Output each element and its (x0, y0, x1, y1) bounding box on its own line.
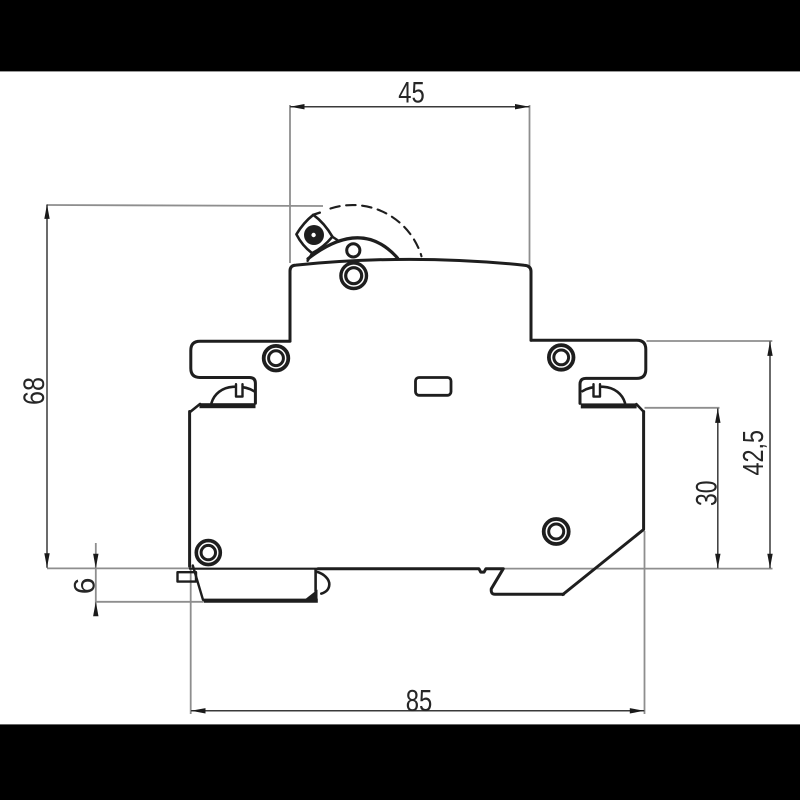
lever bottom tail (308, 253, 313, 261)
left clip slant edge (193, 566, 203, 600)
arrow 42.5 bottom (767, 554, 772, 569)
lower body right edge + chamfer (563, 412, 644, 595)
arrow 6 lower (points up) (93, 602, 98, 617)
left clip bottom bar (203, 599, 318, 603)
ext line 45 left (289, 105, 291, 263)
svg-text:30: 30 (691, 481, 724, 507)
ext line 45 right (529, 105, 531, 266)
letterbox band bottom (0, 724, 800, 800)
lever diamond (296, 215, 332, 253)
left wing (191, 341, 290, 403)
arrow 30 bottom (715, 554, 720, 569)
right clamp arc (583, 387, 626, 403)
right wing (531, 340, 646, 403)
arrow 85 right (630, 708, 645, 713)
left clip right vertical (314, 570, 317, 592)
svg-text:42,5: 42,5 (738, 430, 770, 476)
left clip claw curve (317, 572, 330, 594)
ext line 30 top (645, 407, 720, 409)
svg-text:85: 85 (406, 683, 433, 718)
right wing screw inner (554, 350, 569, 365)
letterbox band top (0, 0, 800, 71)
dashed swing arc (331, 205, 422, 256)
lever right tail (332, 237, 339, 242)
big circle outer (341, 263, 367, 289)
left clip claw triangle (304, 590, 318, 601)
left clamp bar (200, 403, 256, 408)
arrow 30 top (715, 408, 720, 423)
left clamp slot (236, 384, 243, 396)
dim line 42.5 (769, 341, 771, 568)
arrow 45 left (290, 104, 305, 109)
bottom rail floor with notch and right claw (318, 569, 564, 595)
left clamp to body diagonal (190, 404, 200, 412)
centre rectangle (416, 378, 452, 396)
arrow 6 upper (points down) (93, 554, 98, 569)
arrow 45 right (515, 104, 530, 109)
left wing screw inner (269, 351, 284, 366)
ext line 68 bottom / 6 upper (47, 567, 190, 569)
ext line 68 top (47, 205, 323, 206)
arrow 85 left (191, 708, 206, 713)
lever pivot black disc (304, 225, 324, 245)
ext line 85 left (190, 566, 192, 714)
upper body (lid) (290, 259, 531, 341)
small circle above big (347, 244, 360, 257)
ext line 6 lower (96, 601, 203, 603)
right clamp slot (594, 384, 601, 396)
dim line 68 (46, 205, 48, 568)
left wing screw outer (264, 346, 289, 371)
arrow 68 top (44, 204, 49, 219)
bottom right screw inner (549, 524, 564, 539)
bottom left screw outer (196, 541, 220, 565)
dome / escutcheon arc (308, 238, 398, 259)
svg-text:6: 6 (69, 578, 102, 595)
dim line 85 (191, 710, 644, 712)
lever top tail (313, 213, 320, 215)
right wing screw outer (549, 345, 574, 370)
dim line 30 (717, 408, 719, 568)
lever pivot white centre (311, 233, 315, 237)
dim line 45 (290, 106, 530, 108)
svg-text:45: 45 (398, 77, 425, 110)
ext line 30/42.5 bottom (504, 568, 773, 570)
right clamp to body diagonal (636, 404, 643, 412)
svg-text:68: 68 (18, 377, 51, 405)
dim line 6 vertical (95, 543, 97, 616)
lower body left edge (188, 412, 191, 567)
ext line 85 right (644, 531, 646, 714)
left clamp arc (212, 387, 255, 403)
big circle inner (346, 268, 362, 284)
right clamp bar (581, 403, 637, 408)
bottom right screw outer (544, 519, 569, 544)
left clip tab rect (178, 572, 197, 581)
ext line 42.5 top (647, 340, 773, 342)
arrow 42.5 top (767, 341, 772, 356)
bottom line over clip (thin) (190, 568, 318, 570)
bottom left screw inner (201, 545, 215, 559)
arrow 68 bottom (44, 553, 49, 568)
